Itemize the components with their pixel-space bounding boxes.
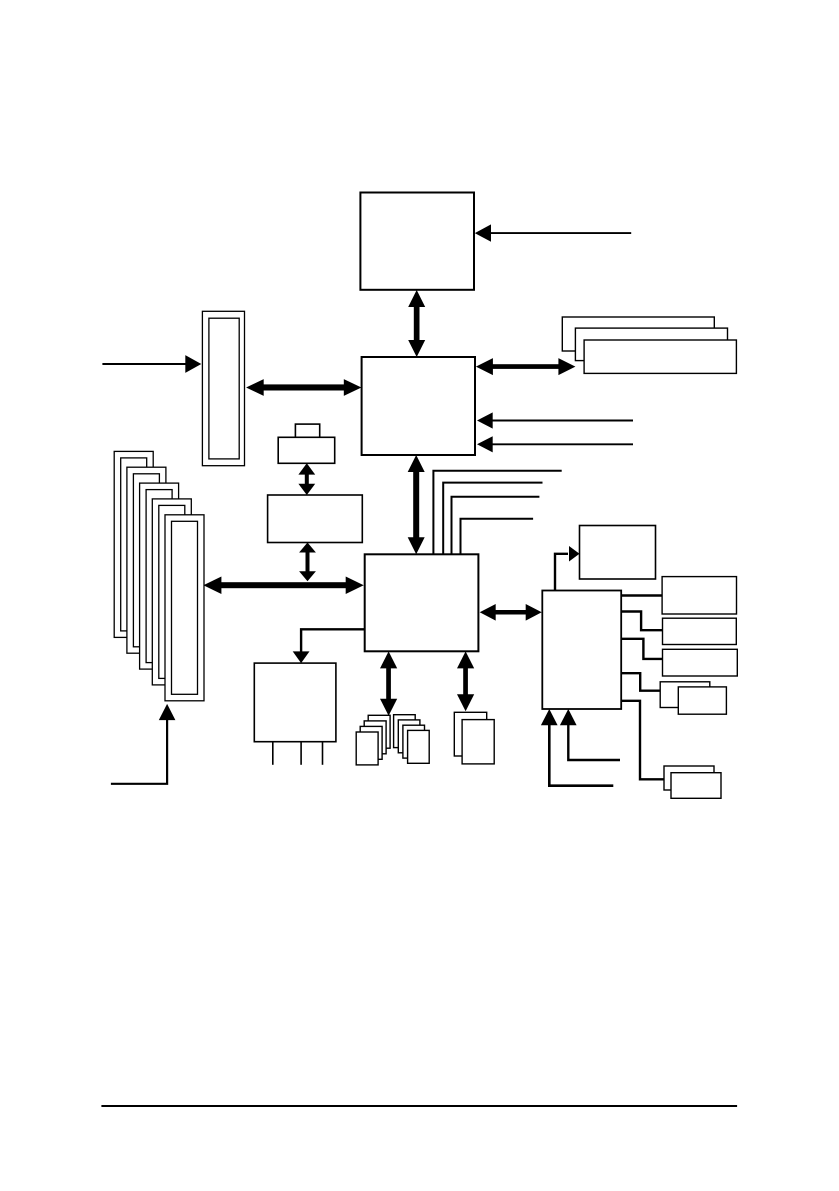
south bridge box U3 bbox=[365, 554, 479, 651]
keyboard controller box bbox=[580, 526, 656, 580]
bus: CPU to north bridge front-side bus double arrow bbox=[408, 290, 425, 357]
wire: arrow into super I/O bottom (left, from lower line) bbox=[541, 709, 613, 786]
bus: AGP slot to north bridge double arrow bbox=[246, 379, 361, 396]
wire D: inner L-wire into south bridge top bbox=[461, 519, 534, 555]
footer horizontal rule bbox=[101, 1105, 737, 1107]
wire: super I/O down to floppy pair (long elbow) bbox=[621, 701, 663, 780]
DIMM slot bank (3 overlapping rectangles) bbox=[562, 317, 736, 373]
bus: PCI slots to south bridge double arrow bbox=[203, 577, 363, 595]
wire: arrow into AGP slot from left bbox=[102, 355, 201, 373]
wire: upper arrow into north bridge right side bbox=[477, 412, 633, 428]
AGP slot connector bbox=[202, 311, 244, 465]
wire: super I/O to game port pair (step) bbox=[621, 673, 660, 691]
USB port pages group 2 (pair) bbox=[454, 712, 494, 764]
COM1 serial port box bbox=[663, 618, 737, 644]
wire: super I/O to parallel port box bbox=[621, 594, 662, 596]
bus: north bridge to south bridge double arrow bbox=[408, 455, 425, 554]
parallel port box bbox=[662, 577, 736, 614]
audio codec box with 3 pins bbox=[254, 663, 336, 765]
bus: south bridge to super I/O double arrow bbox=[480, 604, 542, 621]
wire: lower arrow into north bridge right side bbox=[477, 436, 633, 452]
bus: south bridge to USB group 2 double arrow bbox=[457, 651, 474, 711]
floppy connector box pair bbox=[664, 766, 721, 798]
BIOS box bbox=[268, 495, 363, 543]
wire: super I/O to keyboard controller (up elbow with arrow) bbox=[555, 546, 580, 591]
clock generator box with crystal bump bbox=[278, 424, 335, 463]
wire: arrow into CPU right side bbox=[475, 224, 631, 241]
north bridge box U2 bbox=[362, 357, 475, 455]
bus: BIOS to PCI bus double arrow bbox=[299, 543, 316, 582]
wire: super I/O to COM2 box (step) bbox=[621, 639, 662, 659]
PCI slot connectors (5 nested) bbox=[114, 451, 204, 700]
COM2 serial port box bbox=[663, 649, 738, 676]
game/MIDI port box pair bbox=[660, 682, 726, 714]
wire: arrow into super I/O bottom (right, from upper line) bbox=[560, 709, 620, 760]
bus: clock generator to BIOS double arrow bbox=[298, 463, 315, 495]
super I/O box U4 bbox=[542, 591, 621, 710]
CPU box U1 bbox=[360, 193, 474, 290]
wire: south bridge to audio codec (elbow with arrow) bbox=[293, 629, 365, 663]
wire: super I/O to COM1 box (step) bbox=[621, 612, 662, 631]
wire B: second L-wire into south bridge top bbox=[443, 483, 542, 555]
bus: south bridge to USB group 1 double arrow bbox=[380, 651, 397, 715]
bus: north bridge to DIMM memory double arrow bbox=[476, 358, 576, 375]
wire A: outer L-wire into south bridge top bbox=[433, 471, 561, 555]
wire: arrow up into PCI slot bottom (elbow from bottom left) bbox=[111, 704, 175, 784]
wire C: third L-wire into south bridge top bbox=[452, 497, 540, 555]
USB port pages group 1 (two fans of 4) bbox=[356, 715, 429, 765]
